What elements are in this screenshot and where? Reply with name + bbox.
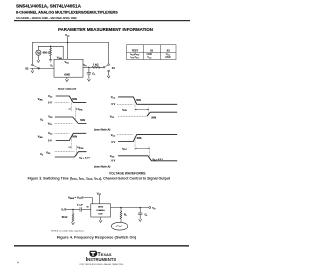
capacitor 0.1uF plates [79,207,81,211]
svg-text:VCC: VCC [65,33,70,38]
svg-text:VI: VI [50,64,53,69]
svg-text:GND: GND [64,73,70,77]
wire DUT ground stub [66,77,68,79]
ground (S2) [31,71,34,73]
svg-text:TEST: TEST [132,50,139,53]
svg-text:50 Ω: 50 Ω [62,215,68,219]
ground (S1) [107,76,110,78]
svg-text:RL: RL [124,212,128,217]
svg-text:VCC: VCC [147,56,152,60]
dashed timing verticals G4 [135,137,150,158]
wire CL ground stub [88,74,90,79]
switch S1 blade [105,65,108,67]
ground (CL fig4) [139,219,142,221]
ground (DUT) [65,79,68,81]
wire generator line to select pin [38,46,63,59]
wire S2 ground stub [31,68,33,70]
analyzer oval [111,222,127,230]
arrow tPZH [68,147,80,148]
node input junction [72,209,73,210]
svg-text:0 V: 0 V [48,138,52,142]
pulse generator G1 [36,50,41,55]
arrow tPZH G3 [135,109,149,110]
svg-text:POST OFFICE BOX 655303 • DAL: POST OFFICE BOX 655303 • DALLAS, TEXAS 7… [80,263,124,266]
svg-text:tPZH: tPZH [122,109,127,113]
svg-text:VO: VO [83,63,87,68]
terminal VI [64,209,66,211]
svg-text:VSEL: VSEL [38,97,44,102]
svg-text:VOZ: VOZ [46,151,51,156]
svg-text:CL: CL [92,72,96,77]
resistor RL fig4 [120,208,122,223]
node CL junction [140,207,141,208]
svg-text:IN: IN [87,206,89,208]
svg-text:0 V: 0 V [111,140,115,144]
svg-text:8-CHANNEL ANALOG MULTIPLEXERS/: 8-CHANNEL ANALOG MULTIPLEXERS/DEMULTIPLE… [16,11,118,15]
wire DUT ground stub fig4 [100,217,102,220]
svg-text:DUT: DUT [99,213,104,215]
resistor R termination [50,46,52,59]
svg-text:VOH: VOH [110,154,115,159]
svg-text:VCC: VCC [111,133,116,138]
node VCC rail junction [67,42,68,43]
svg-text:VO: VO [152,206,156,211]
capacitor CL stub [88,67,90,72]
svg-text:0 V: 0 V [111,159,115,163]
svg-text:INSTRUMENTS: INSTRUMENTS [86,257,117,263]
ground (generator) [37,60,40,62]
svg-text:SN74: SN74 [98,206,104,209]
TI logo symbol [89,251,97,257]
wire DUT output fig4 [111,207,149,209]
svg-text:50%: 50% [72,136,77,138]
wave G2 select input [56,133,86,140]
wave G2 output [55,152,87,157]
dashed timing verticals G3 [135,100,149,116]
svg-text:SN54LV4051A, SN74LV4051A: SN54LV4051A, SN74LV4051A [16,4,82,9]
svg-text:PARAMETER MEASUREMENT INFORMAT: PARAMETER MEASUREMENT INFORMATION [58,27,153,32]
svg-text:VSEL: VSEL [57,55,63,60]
wire DUT output [83,66,92,68]
dashed timing verticals G1 [71,99,75,120]
ground (CL) [87,79,90,81]
svg-text:tPLZ: tPLZ [122,148,127,152]
terminal VO fig4 [149,207,151,209]
resistor RL horizontal [92,67,104,69]
svg-text:VI: VI [61,207,64,212]
header rule [14,20,190,21]
wire VCC stub fig4 [98,195,100,204]
svg-text:VOL + 0.3 V: VOL + 0.3 V [79,158,90,160]
wave G4 select input [118,134,177,141]
DUT box U2 [91,204,111,217]
table S1/S2 frame [127,45,177,60]
svg-text:S2: S2 [25,66,29,70]
arrow tPLZ G4 [135,148,150,149]
svg-text:VCC: VCC [65,60,70,65]
svg-text:tPZH: tPZH [79,146,84,150]
svg-text:0 V: 0 V [48,101,52,105]
wire VCC rail [32,42,108,64]
svg-text:4: 4 [17,260,19,264]
switch S1 contact to VCC [108,64,110,66]
switch S2 pole [38,68,40,70]
node RL junction [120,207,121,208]
svg-text:CL: CL [145,212,149,217]
svg-text:SCLS400B – MARCH 1998 – REVISE: SCLS400B – MARCH 1998 – REVISED APRIL 19… [16,16,77,20]
wire signal input to DUT [30,67,54,69]
switch S2 contact to VCC [32,64,34,66]
capacitor CL fig4 plates [138,212,142,214]
svg-text:VO: VO [40,118,44,123]
wire VBIAS [84,198,93,204]
wire S1 ground stub [108,72,110,76]
wire cap to DUT [82,208,91,210]
wire input [66,208,80,210]
svg-text:50%: 50% [151,118,156,120]
svg-text:50%: 50% [137,138,142,140]
svg-text:VOZ: VOZ [110,114,115,119]
svg-text:GND: GND [165,56,171,59]
switch S1 pole [103,67,105,69]
svg-text:50%: 50% [72,99,77,101]
svg-text:VCC: VCC [48,131,53,136]
svg-text:0 V: 0 V [111,102,115,106]
svg-text:VSEL: VSEL [38,134,44,139]
DUT box U1 [54,59,83,77]
switch S1 contact to GND [108,70,110,72]
wave G3 select input [118,97,177,104]
svg-text:VCC: VCC [48,94,53,99]
switch S2 blade [33,65,38,67]
svg-text:50%: 50% [80,120,85,122]
svg-text:50%: 50% [136,100,141,102]
svg-text:(see Note A): (see Note A) [94,165,110,169]
node output junction [88,67,89,68]
svg-text:Figure 3. Switching Time (tPZH: Figure 3. Switching Time (tPZH, tPZL, tP… [28,177,171,182]
svg-text:VOLTAGE WAVEFORMS: VOLTAGE WAVEFORMS [109,171,145,175]
node resistor top junction [50,46,51,47]
svg-text:VOZ: VOZ [48,115,53,120]
svg-text:VBIAS = VCC/2: VBIAS = VCC/2 [68,196,84,201]
dashed timing verticals G2 [71,136,76,156]
ground (resistor, bar style) [49,60,52,62]
svg-text:tPZL/tPLZ: tPZL/tPLZ [131,56,141,60]
capacitor CL fig4 stub [139,208,141,213]
wire CL fig4 ground stub [139,214,141,219]
wire generator ground stub [37,55,39,60]
svg-text:S1: S1 [112,66,116,70]
svg-text:NOTE A: CL includes probe cap: NOTE A: CL includes probe capacitance [51,230,84,233]
svg-text:VOL: VOL [48,122,53,127]
footer rule [14,245,189,246]
svg-text:VCC: VCC [111,95,116,100]
wave G1 output [55,117,87,124]
resistor input termination [72,209,74,222]
wave G4 output [118,156,177,161]
svg-text:600 Ω: 600 Ω [43,51,50,55]
arrow tPZL [68,108,79,109]
svg-text:VO: VO [40,152,44,157]
svg-text:1 kΩ: 1 kΩ [93,62,99,66]
VCC label stub [67,37,69,60]
svg-text:Figure 4. Frequency Response (: Figure 4. Frequency Response (Switch On) [57,235,137,240]
wave G1 select input [56,96,86,103]
svg-text:VCC: VCC [97,191,102,196]
svg-text:TEST CIRCUIT: TEST CIRCUIT [58,87,77,91]
svg-text:(see Note A): (see Note A) [94,128,110,132]
svg-text:tPZL: tPZL [78,108,83,112]
ground (DUT fig4) [99,220,102,222]
TEXAS INSTRUMENTS wordmark [86,252,117,263]
ground (input resistor) [72,222,75,224]
svg-text:LV4051A: LV4051A [96,209,105,212]
svg-text:0.1 μF: 0.1 μF [77,205,84,207]
wave G3 output [147,112,177,116]
capacitor CL plates [87,72,91,74]
